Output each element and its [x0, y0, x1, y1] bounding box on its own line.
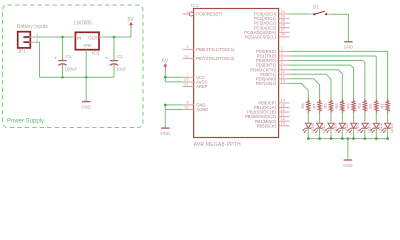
pin 16 PB2(SS/OC1B) — [247, 108, 289, 115]
resistor R6 — [323, 99, 333, 113]
led LED8 — [302, 122, 315, 133]
resistor R5 — [334, 99, 344, 113]
svg-text:R5: R5 — [334, 103, 339, 109]
svg-text:+: + — [106, 56, 109, 61]
svg-text:C2: C2 — [117, 54, 123, 59]
svg-text:C1: C1 — [66, 54, 72, 59]
svg-text:AGND: AGND — [196, 107, 208, 112]
svg-text:11: 11 — [281, 70, 285, 74]
svg-text:AVR MEGA8-PPTH: AVR MEGA8-PPTH — [194, 142, 241, 148]
svg-text:PB7(XTAL2/TOSC2): PB7(XTAL2/TOSC2) — [196, 56, 235, 61]
pin stub IN — [72, 36, 76, 38]
node rail junction 3 — [330, 137, 333, 140]
svg-text:LED4: LED4 — [356, 123, 360, 133]
svg-text:2: 2 — [281, 47, 283, 51]
node junction 7805 GND to rail — [85, 76, 88, 79]
resistor R8 — [300, 99, 310, 113]
svg-text:LED1: LED1 — [390, 123, 394, 133]
svg-text:OUT: OUT — [88, 36, 97, 41]
pin 8 GND — [183, 101, 206, 108]
svg-text:5V: 5V — [128, 17, 135, 23]
node rail junction 5 — [352, 137, 355, 140]
pin 23 PC0(ADC0) — [254, 10, 290, 17]
svg-text:R3: R3 — [357, 103, 362, 109]
svg-text:5: 5 — [281, 61, 283, 65]
svg-text:14: 14 — [281, 99, 285, 103]
ground symbol (at IC) — [161, 127, 169, 129]
connector JP1 — [18, 32, 36, 48]
pin 21 AREF — [183, 82, 208, 89]
led LED5 — [336, 122, 349, 133]
svg-text:GND: GND — [83, 43, 92, 48]
pin 28 PC5(ADC5/SCL) — [245, 33, 290, 40]
pin 4 PD2(INT0) — [256, 56, 290, 63]
svg-text:LED8: LED8 — [311, 123, 315, 133]
led LED2 — [370, 122, 383, 133]
wire AGND pin to ground — [165, 109, 182, 111]
svg-text:12: 12 — [281, 75, 285, 79]
svg-text:AREF: AREF — [196, 84, 208, 89]
svg-text:19: 19 — [281, 122, 285, 126]
capacitor C2 — [106, 56, 119, 66]
pin 10 PB7(XTAL2/TOSC2) — [183, 54, 235, 61]
svg-text:Power Supply: Power Supply — [7, 119, 44, 125]
svg-text:R7: R7 — [311, 103, 316, 109]
wire JP1 pin1 to LM7805 IN — [35, 36, 71, 38]
svg-text:100uF: 100uF — [65, 67, 78, 72]
svg-text:15: 15 — [281, 103, 285, 107]
pin 7 VCC — [183, 73, 205, 80]
node rail junction 8 — [386, 137, 389, 140]
wire LED7 to rail — [319, 128, 321, 138]
svg-text:LED7: LED7 — [322, 123, 326, 133]
svg-text:LED2: LED2 — [379, 123, 383, 133]
wire OUT to 5V riser — [104, 36, 131, 38]
pin 14 PB0(ICP) — [258, 99, 289, 106]
resistor R2 — [368, 99, 378, 113]
wire LED ground rail — [308, 138, 387, 140]
resistor R7 — [311, 99, 321, 113]
wire LED4 to rail — [353, 128, 355, 138]
wire C2 bottom — [113, 65, 115, 78]
pin 20 AVCC — [183, 78, 208, 85]
wire LED8 to rail — [307, 128, 309, 138]
svg-text:R8: R8 — [300, 103, 305, 109]
wire LED1 to rail — [387, 128, 389, 138]
wire riser to 5V — [130, 28, 132, 37]
svg-text:LED6: LED6 — [334, 123, 338, 133]
led LED7 — [314, 122, 327, 133]
svg-text:28: 28 — [281, 33, 285, 37]
svg-text:8: 8 — [186, 101, 188, 105]
svg-text:5V: 5V — [162, 59, 169, 65]
svg-text:25: 25 — [281, 19, 285, 23]
pin 2 PD0(RXD) — [256, 47, 289, 54]
svg-text:27: 27 — [281, 28, 285, 32]
regulator IC2 LM7805 — [75, 32, 99, 49]
wire PD2 to R3 — [290, 61, 365, 100]
svg-text:6: 6 — [281, 66, 283, 70]
pin 27 PC4(ADC4/SDA) — [244, 28, 289, 35]
svg-text:13: 13 — [281, 79, 285, 83]
ground symbol (led rail) — [344, 159, 352, 161]
wire PD1 to R2 — [290, 56, 377, 99]
resistor R3 — [357, 99, 367, 113]
pin 9 PB6(XTAL1/TOSC1) — [183, 45, 235, 52]
svg-text:R6: R6 — [323, 103, 328, 109]
led LED4 — [348, 122, 361, 133]
node junction GND — [164, 104, 167, 107]
svg-text:10uF: 10uF — [116, 67, 127, 72]
wire LED5 to rail — [341, 128, 343, 138]
svg-text:3: 3 — [281, 52, 283, 56]
supply symbol 5V (at IC VCC) — [163, 63, 167, 69]
node junction C1 tap — [61, 36, 64, 39]
resistor R4 — [345, 99, 355, 113]
svg-text:+: + — [54, 56, 57, 61]
svg-text:1: 1 — [186, 10, 188, 14]
wire 5V to AVCC — [165, 77, 182, 82]
wire PD5 to R6 — [290, 74, 331, 99]
pin 24 PC1(ADC1) — [254, 14, 290, 21]
wire C1 top — [62, 37, 64, 60]
svg-text:IC2: IC2 — [92, 51, 100, 57]
wire PD0 to R1 — [290, 51, 388, 99]
svg-text:17: 17 — [281, 112, 285, 116]
svg-text:LM7805: LM7805 — [74, 21, 92, 27]
svg-text:24: 24 — [281, 14, 285, 18]
pin 3 PD1(TXD) — [257, 52, 290, 59]
pin 12 PD6(AIN0) — [256, 75, 290, 82]
wire R2 to LED2 — [375, 113, 377, 122]
svg-text:4: 4 — [281, 56, 283, 60]
resistor R1 — [379, 99, 389, 113]
svg-text:18: 18 — [281, 117, 285, 121]
svg-text:LED3: LED3 — [368, 123, 372, 133]
pin stub OUT — [99, 36, 104, 38]
pin 1 PC6(/RESET) — [183, 10, 223, 17]
pin 5 PD3(INT1) — [256, 61, 290, 68]
svg-text:PB6(XTAL1/TOSC1): PB6(XTAL1/TOSC1) — [196, 47, 235, 52]
led LED6 — [325, 122, 338, 133]
led LED3 — [359, 122, 372, 133]
pin 13 PD7(AIN1) — [256, 79, 290, 86]
wire R1 to LED1 — [387, 113, 389, 122]
pin 19 PB5(SCK) — [257, 122, 290, 129]
svg-text:PC5(ADC5/SCL): PC5(ADC5/SCL) — [245, 35, 277, 40]
wire JP1 pin2 down to ground rail — [35, 42, 39, 77]
svg-text:16: 16 — [281, 108, 285, 112]
wire rail to ground — [347, 139, 349, 160]
wire PC0 to switch S1 — [290, 13, 310, 15]
node junction C2 tap — [113, 36, 116, 39]
svg-text:23: 23 — [281, 10, 285, 14]
wire R7 to LED7 — [319, 113, 321, 122]
wire PD6 to R7 — [290, 79, 320, 99]
svg-text:S1: S1 — [313, 5, 319, 11]
wire PD3 to R4 — [290, 65, 354, 99]
svg-text:10: 10 — [184, 54, 188, 58]
wire C1 bottom — [62, 65, 64, 78]
svg-text:PD7(AIN1): PD7(AIN1) — [256, 81, 277, 86]
pin 18 PB4(MISO) — [255, 117, 290, 124]
pin 15 PB1(OC1A) — [254, 103, 290, 110]
svg-text:GND: GND — [161, 131, 171, 136]
svg-text:GND: GND — [343, 163, 353, 168]
ground symbol (power supply) — [82, 101, 90, 103]
svg-text:LED5: LED5 — [345, 123, 349, 133]
svg-text:9: 9 — [186, 45, 188, 49]
wire switch to ground — [331, 14, 348, 41]
node rail junction 7 — [375, 137, 378, 140]
wire GND pin to ground — [165, 105, 182, 128]
switch S1 — [309, 11, 331, 15]
wire 7805 GND down — [85, 50, 87, 101]
node junction C1 to rail — [61, 76, 64, 79]
pin 22 AGND — [183, 105, 209, 112]
pin 6 PD4(XCK/T0) — [250, 66, 289, 73]
wire ground rail of power supply — [40, 76, 115, 78]
power supply frame — [3, 5, 144, 128]
wire PD7 to R8 — [290, 83, 309, 99]
pin 17 PB3(MOSI/OC2) — [245, 112, 290, 119]
svg-text:R1: R1 — [379, 103, 384, 109]
svg-text:IN: IN — [77, 36, 81, 41]
svg-text:R4: R4 — [345, 103, 350, 109]
pin 25 PC2(ADC2) — [254, 19, 290, 26]
svg-text:JP1: JP1 — [18, 49, 27, 55]
wire R6 to LED6 — [330, 113, 332, 122]
svg-text:21: 21 — [184, 82, 188, 86]
wire LED2 to rail — [375, 128, 377, 138]
node rail junction 6 — [364, 137, 367, 140]
node rail junction 1 — [307, 137, 310, 140]
wire 5V to VCC — [165, 70, 182, 78]
svg-text:Battery Inputs: Battery Inputs — [17, 24, 48, 30]
wire LED3 to rail — [364, 128, 366, 138]
svg-text:PC6(/RESET): PC6(/RESET) — [196, 12, 223, 17]
pin 11 PD5(T1) — [260, 70, 289, 77]
svg-text:20: 20 — [184, 78, 188, 82]
wire R8 to LED8 — [307, 113, 309, 122]
svg-text:GND: GND — [344, 45, 354, 50]
svg-text:22: 22 — [184, 105, 188, 109]
svg-text:GND: GND — [81, 105, 91, 110]
svg-text:26: 26 — [281, 24, 285, 28]
node rail junction 2 — [318, 137, 321, 140]
ground symbol (switch) — [344, 41, 352, 43]
led LED1 — [382, 122, 395, 133]
svg-text:R2: R2 — [368, 103, 373, 109]
node junction VCC — [164, 76, 167, 79]
mcu IC1 AVR MEGA8 box — [194, 9, 279, 138]
wire C2 top — [113, 37, 115, 60]
node rail junction gnd drop — [347, 137, 350, 140]
svg-text:PB5(SCK): PB5(SCK) — [257, 123, 277, 128]
wire PD4 to R5 — [290, 70, 343, 99]
wire R4 to LED4 — [353, 113, 355, 122]
wire R5 to LED5 — [341, 113, 343, 122]
wire LED6 to rail — [330, 128, 332, 138]
node rail junction 4 — [341, 137, 344, 140]
capacitor C1 — [54, 56, 67, 66]
wire R3 to LED3 — [364, 113, 366, 122]
supply symbol 5V (power supply box) — [129, 22, 133, 28]
pin 26 PC3(ADC3) — [254, 24, 290, 31]
svg-text:7: 7 — [186, 73, 188, 77]
